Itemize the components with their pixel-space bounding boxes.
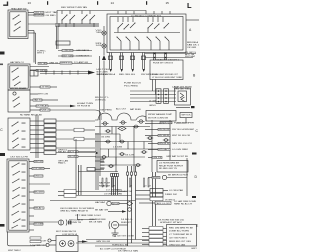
svg-text:BRKR: BRKR	[153, 177, 161, 179]
pin labels U4	[22, 123, 26, 148]
long drop wire	[99, 56, 101, 120]
wire w/ label	[30, 70, 36, 72]
wire row w/ label	[58, 55, 92, 57]
svg-text:CONN BRN: CONN BRN	[63, 50, 74, 52]
wire from U3 pin 1	[30, 93, 38, 95]
svg-text:PDC FEED: PDC FEED	[124, 86, 139, 88]
fuse F1	[102, 122, 109, 125]
svg-text:FUSE BLOCK: FUSE BLOCK	[124, 82, 142, 84]
page number	[191, 248, 198, 250]
svg-text:IGN DOME BLU 20 SW BRKR: IGN DOME BLU 20 SW BRKR	[60, 208, 94, 210]
harness trunk wire	[40, 71, 88, 73]
svg-text:13: 13	[28, 1, 32, 5]
svg-text:BRKR RED CKT ORG: BRKR RED CKT ORG	[169, 241, 191, 243]
wire to fuse block	[30, 109, 40, 111]
svg-text:16 BLU L: 16 BLU L	[121, 219, 134, 221]
right margin wires	[186, 19, 199, 21]
svg-text:MOT TAN: MOT TAN	[46, 11, 59, 14]
fuse block label	[124, 82, 142, 87]
svg-text:L7 18B: L7 18B	[113, 146, 123, 148]
headlamp switch U1	[8, 10, 28, 39]
svg-text:FEED WT: FEED WT	[121, 222, 132, 224]
svg-text:20 RED C: 20 RED C	[95, 99, 106, 101]
multifunction switch U5 label	[10, 157, 29, 159]
turn signal flasher F1	[58, 220, 63, 225]
svg-text:WHT 2: WHT 2	[37, 52, 45, 54]
bundle labels	[102, 178, 152, 193]
svg-text:GRN G5: GRN G5	[49, 63, 59, 65]
dome lamp switch S3	[81, 11, 95, 25]
horn wire w/ label	[30, 240, 46, 247]
bus drop wire	[56, 26, 58, 49]
svg-text:RD PARK RELAY BK: RD PARK RELAY BK	[20, 114, 43, 117]
PDC input rows	[142, 227, 167, 246]
switch contacts	[11, 162, 20, 228]
svg-text:PARK RD ACC R: PARK RD ACC R	[174, 202, 192, 205]
turn signal switch U4 label	[20, 114, 43, 117]
turn signal switch U4	[8, 118, 30, 150]
wire from headlamp switch pin 1	[28, 12, 34, 14]
svg-text:MOT FUSE WHT R: MOT FUSE WHT R	[56, 231, 76, 233]
dimmer bottom wire	[8, 232, 36, 246]
horn H1	[109, 221, 110, 229]
left margin tab	[0, 153, 5, 156]
wiper motor M1	[175, 88, 191, 105]
wire row w/ label	[38, 63, 92, 65]
svg-text:HORN RELAY FEED: HORN RELAY FEED	[89, 218, 106, 221]
bulb labels	[96, 30, 103, 47]
horn feed arrow	[78, 241, 82, 243]
svg-text:GRY HAZ Y: GRY HAZ Y	[159, 148, 171, 151]
pin stubs U6	[118, 11, 170, 14]
svg-text:RED WIPER TURN TAN: RED WIPER TURN TAN	[61, 6, 87, 9]
svg-text:GRY BAT 16 WT FE: GRY BAT 16 WT FE	[166, 155, 189, 158]
wire rows to margin	[145, 53, 196, 55]
horns B1	[56, 236, 78, 252]
svg-text:FUSE LG: FUSE LG	[41, 110, 51, 112]
sub box	[150, 60, 183, 80]
svg-text:GRN GRY RED: GRN GRY RED	[174, 89, 190, 91]
svg-text:15: 15	[166, 1, 170, 5]
wire from headlamp switch pin 4	[28, 30, 34, 32]
fuse 4 tag	[180, 113, 192, 118]
svg-text:CKT SIG 12 FE: CKT SIG 12 FE	[10, 157, 29, 159]
arrow labels	[97, 73, 158, 76]
row	[95, 208, 108, 211]
splices	[101, 125, 169, 168]
bulb L1	[102, 31, 106, 35]
svg-text:SIG CKT WT LG RE: SIG CKT WT LG RE	[112, 235, 135, 237]
horn feed	[119, 224, 128, 226]
svg-text:RELAY: RELAY	[58, 151, 67, 154]
svg-text:ACC CKT: ACC CKT	[116, 108, 127, 111]
horns label	[56, 231, 76, 233]
svg-text:RED ORG SIG: RED ORG SIG	[119, 74, 135, 76]
connector row	[109, 56, 146, 60]
svg-text:LG IGN 18BK: LG IGN 18BK	[172, 149, 189, 151]
svg-text:RELAY FUSE HORN H: RELAY FUSE HORN H	[159, 164, 183, 167]
svg-text:RD RED GRY YE: RD RED GRY YE	[159, 168, 178, 170]
ground G1	[114, 229, 116, 233]
connector bar	[164, 89, 169, 104]
harness connector block	[30, 70, 38, 76]
relay wire w/ circle	[148, 177, 152, 179]
svg-text:SW SW SW: SW SW SW	[159, 129, 170, 131]
svg-text:GRN BAT B: GRN BAT B	[76, 49, 90, 52]
svg-text:TAN YEL L50 CO: TAN YEL L50 CO	[172, 142, 192, 145]
park lamp switch U2 label	[10, 61, 24, 64]
svg-text:HORN BLU BK: HORN BLU BK	[112, 244, 129, 246]
stop lamp rows	[58, 149, 68, 153]
svg-text:14: 14	[111, 1, 115, 5]
svg-text:L: L	[187, 1, 192, 10]
svg-text:LO RD ACC CONN HI SIG: LO RD ACC CONN HI SIG	[131, 14, 161, 17]
connector bar	[156, 89, 161, 104]
wire pair down to lamp feed	[33, 31, 35, 63]
node label	[37, 50, 47, 54]
svg-text:MOT TAN: MOT TAN	[63, 54, 74, 57]
svg-text:FUSE WT ORG IG: FUSE WT ORG IG	[153, 62, 173, 64]
svg-text:ORG DO: ORG DO	[35, 176, 44, 178]
svg-text:STOP LAMP: STOP LAMP	[33, 167, 45, 170]
wiper motor connector wires	[130, 91, 176, 102]
grid tick	[146, 1, 147, 5]
label rows	[60, 208, 101, 217]
svg-text:TAN IG: TAN IG	[34, 99, 43, 102]
svg-text:HAZ L: HAZ L	[58, 162, 67, 165]
right fuse rows	[145, 121, 195, 151]
svg-text:WHT BR: WHT BR	[35, 161, 44, 163]
svg-text:RELAY CKT: RELAY CKT	[99, 184, 111, 187]
riser	[186, 158, 188, 196]
svg-text:14 HORN LO D: 14 HORN LO D	[30, 245, 47, 247]
ground bus wire	[55, 23, 99, 25]
feed arrow	[102, 55, 106, 60]
grid tick	[47, 1, 48, 5]
headlamp switch contacts	[12, 14, 21, 31]
svg-text:WIPER VIO: WIPER VIO	[61, 63, 73, 65]
wire rows from U5	[29, 160, 50, 230]
svg-text:DK GRN 14: DK GRN 14	[165, 199, 176, 201]
arrows	[109, 69, 145, 72]
dome lamp switch S2	[61, 11, 75, 25]
grid tick	[97, 1, 98, 5]
svg-text:STOP: STOP	[113, 203, 120, 205]
margin note	[185, 52, 197, 58]
terminal caps	[111, 172, 137, 177]
flasher wire	[29, 221, 58, 223]
svg-text:LG HORN BRN BR: LG HORN BRN BR	[159, 163, 179, 165]
sub box notes	[152, 73, 183, 79]
switch contacts	[11, 67, 20, 86]
margin dash	[192, 196, 196, 198]
svg-text:LG ORG WT GRN: LG ORG WT GRN	[104, 193, 122, 195]
svg-text:GRN BLU PARK RELAY W: GRN BLU PARK RELAY W	[60, 210, 89, 213]
svg-text:CKT SW FUSE S: CKT SW FUSE S	[169, 238, 188, 240]
svg-text:SW TAN: SW TAN	[39, 62, 48, 65]
bundle risers	[112, 166, 156, 246]
bottom feed labels	[100, 247, 138, 252]
key symbol	[13, 92, 16, 95]
svg-text:RED DIM BRN PK BE: RED DIM BRN PK BE	[169, 227, 194, 229]
svg-text:14 B: 14 B	[96, 45, 103, 47]
drop wires with arrows	[110, 53, 156, 95]
svg-text:SW TAN BL: SW TAN BL	[159, 134, 170, 137]
svg-text:12 LAMP GR: 12 LAMP GR	[74, 61, 88, 64]
motor labels	[149, 101, 156, 108]
row w/ oval	[95, 201, 106, 204]
horn wire w/ label	[30, 237, 47, 243]
svg-text:HAZ FLSH: HAZ FLSH	[99, 181, 110, 184]
svg-text:WHT TAN C: WHT TAN C	[8, 249, 21, 252]
power distribution center	[167, 225, 197, 247]
splice box	[87, 168, 95, 171]
svg-text:WIPER WASHER PUMP: WIPER WASHER PUMP	[148, 113, 173, 116]
svg-text:G5 18W: G5 18W	[101, 136, 110, 138]
svg-text:LT TURN BAT BK R: LT TURN BAT BK R	[169, 233, 192, 236]
ignition switch U3 label	[10, 87, 26, 90]
left margin tab	[0, 224, 5, 227]
splice connector	[56, 41, 70, 45]
svg-text:WHT DK: WHT DK	[182, 114, 192, 116]
fuse row labels	[100, 108, 142, 112]
svg-text:GRN D: GRN D	[149, 105, 156, 107]
wiper switch U6	[107, 14, 186, 53]
svg-text:LG YEL: LG YEL	[41, 87, 50, 89]
riser x96	[95, 133, 97, 190]
trunk labels	[96, 235, 135, 246]
bulb wires	[103, 26, 105, 30]
bulb L2	[102, 44, 106, 48]
junction box label	[146, 111, 176, 122]
svg-text:LO ORG PAR: LO ORG PAR	[169, 189, 183, 192]
ignition switch U3	[8, 90, 30, 112]
svg-text:IGN PK: IGN PK	[153, 157, 163, 159]
left margin mark	[0, 64, 3, 66]
svg-text:BK GRY: BK GRY	[35, 192, 45, 194]
svg-text:BK BRKR 16 HOR: BK BRKR 16 HOR	[168, 174, 188, 176]
svg-text:SW WIPER 14: SW WIPER 14	[141, 74, 158, 76]
accessory relay K1	[148, 157, 152, 159]
wire from headlamp switch pin 3	[28, 23, 56, 25]
svg-text:G5 DIM: G5 DIM	[35, 224, 44, 226]
svg-text:SW YEL HORN BAT: SW YEL HORN BAT	[172, 128, 195, 131]
wire bus drop	[56, 11, 58, 25]
svg-text:X3 12R: X3 12R	[125, 154, 135, 156]
svg-text:PARK LG GRY: PARK LG GRY	[156, 202, 172, 205]
horn relay rows	[106, 188, 123, 191]
pin labels U5	[22, 164, 26, 227]
svg-text:LO 16 PARK: LO 16 PARK	[106, 188, 123, 191]
svg-text:18BK DK: 18BK DK	[165, 194, 178, 196]
page footer text	[8, 249, 21, 252]
svg-text:TURN: TURN	[96, 32, 102, 34]
svg-text:BRN BK FE: BRN BK FE	[159, 143, 171, 145]
wire w/ label	[30, 99, 33, 101]
svg-text:BAT FEED: BAT FEED	[130, 108, 142, 111]
svg-text:HORN ACC WT ACC: HORN ACC WT ACC	[160, 221, 182, 224]
svg-text:G5 RED: G5 RED	[46, 15, 57, 17]
grid notes	[101, 136, 135, 156]
wire bend	[78, 214, 96, 220]
corner mark top-left	[3, 2, 7, 6]
harness arrow	[88, 71, 95, 75]
svg-text:BRKR TAN: BRKR TAN	[161, 121, 173, 124]
wire below motor	[176, 106, 190, 108]
horn relay note	[89, 218, 106, 224]
fuse F2	[120, 121, 127, 124]
bottom trunk wires	[86, 239, 166, 241]
svg-text:IGN FEED: IGN FEED	[100, 110, 113, 112]
fuse block top edge	[95, 113, 146, 121]
wire bundle A	[79, 165, 82, 195]
internal bus	[114, 32, 180, 34]
svg-text:MOT LT: MOT LT	[69, 151, 79, 153]
multifunction switch U5	[7, 159, 29, 232]
wiper switch contacts left	[117, 17, 135, 30]
svg-text:MOTOR CONN SW: MOTOR CONN SW	[148, 118, 169, 120]
splice J9	[105, 130, 111, 133]
svg-text:GRN YEL GR: GRN YEL GR	[96, 241, 110, 243]
fuse network wires	[78, 120, 170, 176]
fuse tag column	[100, 159, 105, 169]
wire pair riser	[35, 115, 37, 158]
fuse grid stubs	[109, 127, 145, 166]
svg-text:LT BLU DK GRN WHT 18BK: LT BLU DK GRN WHT 18BK	[152, 77, 183, 79]
wire w/ label and arrow	[30, 105, 36, 107]
label	[95, 97, 110, 101]
svg-text:CONN MOT: CONN MOT	[76, 56, 90, 58]
svg-text:WHT CON: WHT CON	[38, 94, 48, 96]
svg-text:ORG VIO 18B: ORG VIO 18B	[169, 244, 186, 246]
relay output rows	[136, 189, 197, 206]
margin dash	[192, 153, 197, 155]
riser x76	[75, 139, 77, 195]
splice note text	[99, 181, 111, 187]
PDC label	[158, 219, 185, 224]
wire w/ oval label	[30, 86, 40, 88]
switch contacts	[11, 121, 19, 148]
svg-text:STOP DK: STOP DK	[35, 15, 45, 17]
svg-text:BK 18 TAN: BK 18 TAN	[89, 221, 102, 224]
switch contacts	[12, 96, 20, 107]
wire from headlamp switch pin 2	[28, 14, 34, 16]
wiper switch contacts right	[147, 17, 169, 29]
wire bulb feed drop	[103, 61, 105, 113]
park lamp switch U2	[8, 64, 30, 90]
svg-text:HAZ HAZ: HAZ HAZ	[95, 201, 106, 204]
svg-text:TR FUSE M: TR FUSE M	[77, 105, 90, 107]
svg-text:WHT DK SIG OR: WHT DK SIG OR	[172, 135, 190, 137]
svg-text:DOME BLU HORN: DOME BLU HORN	[169, 231, 189, 233]
wire dome lamp feed	[57, 11, 146, 15]
wiper motor label	[172, 85, 193, 90]
column connector rows	[30, 119, 95, 154]
wire from U2	[30, 66, 49, 68]
wire row w/ label	[58, 50, 92, 52]
svg-text:CKT 18BK 18BK 14 HO: CKT 18BK 18BK 14 HO	[75, 215, 101, 217]
svg-text:BK BAT GR: BK BAT GR	[95, 208, 108, 211]
svg-text:GRY: GRY	[191, 248, 198, 250]
lower contacts	[116, 36, 169, 41]
svg-text:RELAY L: RELAY L	[35, 207, 44, 210]
svg-text:LT GR: LT GR	[149, 101, 156, 103]
left margin tab	[0, 52, 5, 55]
splice diamond	[118, 126, 126, 130]
svg-text:CONN TR: CONN TR	[69, 222, 81, 224]
svg-text:LO HAZ 18BK DOME: LO HAZ 18BK DOME	[174, 200, 197, 203]
fuse F3	[138, 120, 145, 123]
svg-text:DK RELAY: DK RELAY	[37, 105, 49, 108]
wire from headlamp switch pin 5	[28, 32, 36, 34]
long feed	[50, 200, 136, 202]
dome lamp feed label	[61, 6, 87, 9]
svg-text:VIO BR: VIO BR	[187, 47, 197, 49]
